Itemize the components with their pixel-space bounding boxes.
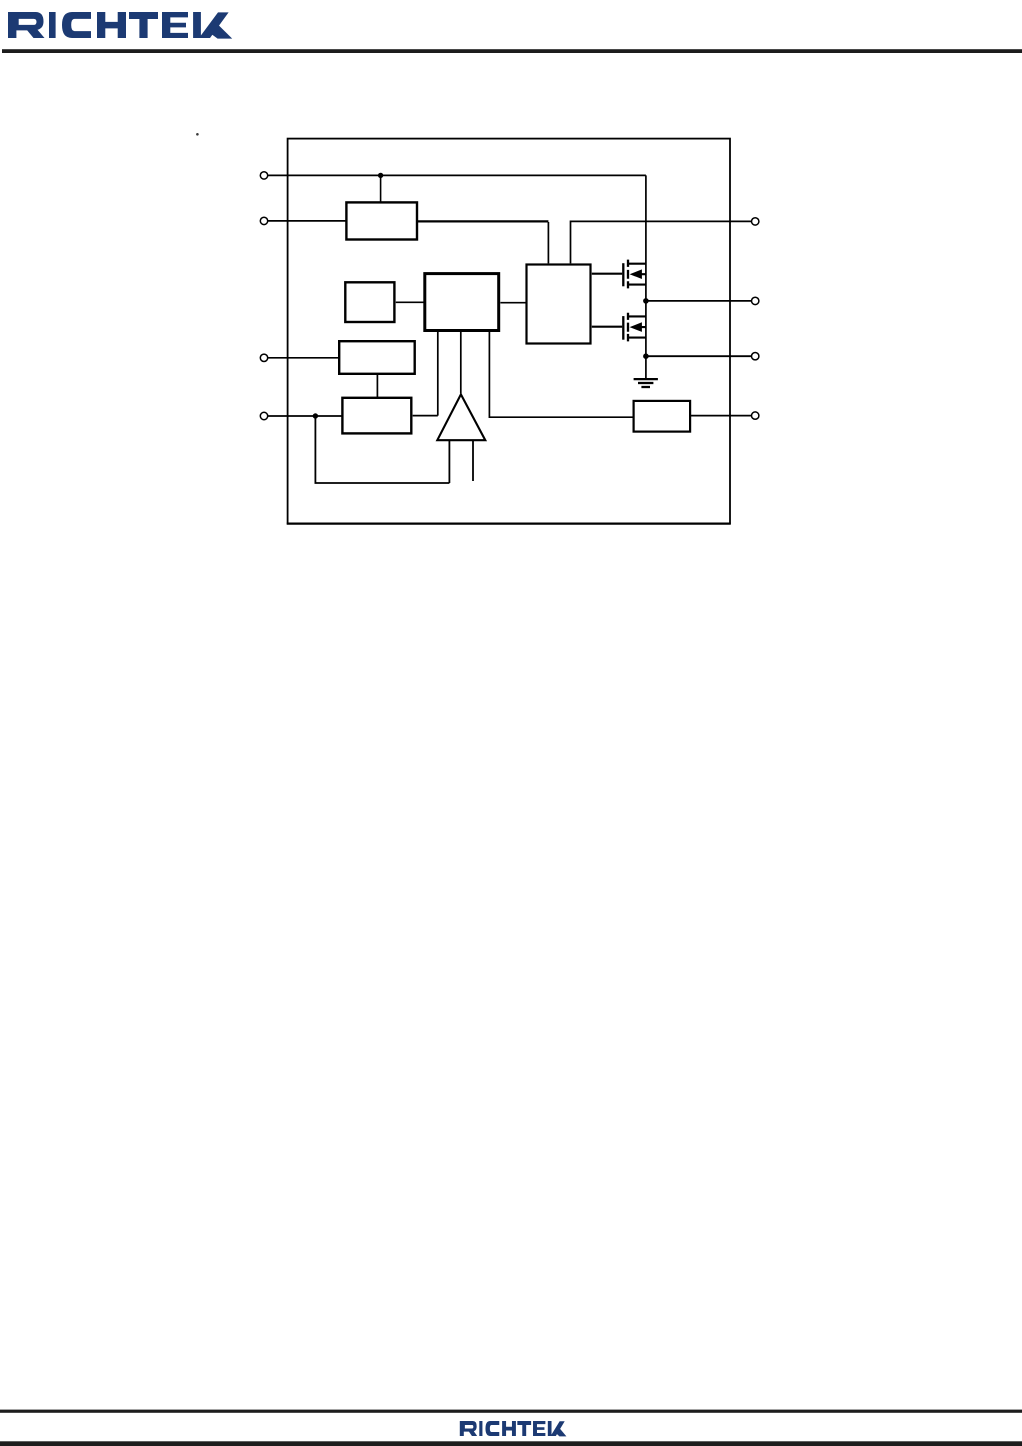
- junction dot PGND node: [643, 353, 649, 359]
- wire: pin P3 to block B5: [268, 357, 339, 359]
- wire: B5 to B6: [376, 375, 378, 397]
- pin P2 terminal: [260, 217, 267, 224]
- block B3 control logic: [425, 274, 499, 331]
- block B4 gate driver: [527, 265, 591, 344]
- transistor Q1 high-side NMOS: [623, 260, 646, 289]
- wire: B3 to B4: [500, 302, 526, 304]
- wire: PGND node to pin P7: [646, 355, 752, 357]
- wire: pin P2 to block B1 input: [268, 220, 346, 222]
- transistor Q2 low-side NMOS: [623, 313, 646, 342]
- wire: B1 output to driver block top: [418, 220, 549, 222]
- wire: B3 down and right to block B7: [489, 332, 633, 418]
- pin P7 terminal: [752, 353, 759, 360]
- pin P1 terminal: [260, 172, 267, 179]
- wire: top rail from pin P1 to MOSFET drain/source column: [268, 175, 646, 378]
- wire: driver to Q2 gate: [592, 326, 622, 328]
- ground symbol: [634, 379, 658, 387]
- wire: comparator reference input stub: [472, 441, 474, 482]
- pin P6 terminal: [752, 297, 759, 304]
- pin P8 terminal: [752, 412, 759, 419]
- wire: feedback from dot B to comparator non-inverting input: [315, 416, 449, 483]
- wire: dot A down to block B1: [380, 175, 382, 201]
- wire: driver block top to pin P5: [571, 221, 752, 263]
- junction dot B on pin P4 wire: [313, 413, 318, 418]
- pin P3 terminal: [260, 354, 267, 361]
- wire: B2 to B3: [396, 301, 424, 303]
- junction dot A on top rail: [378, 173, 383, 178]
- comparator A1: [437, 394, 485, 440]
- wire: B7 output to pin P8: [691, 415, 752, 417]
- pin P4 terminal: [260, 412, 267, 419]
- footer bottom bar: [0, 1441, 1022, 1446]
- wire: pin P4 to block B6 input: [268, 415, 342, 417]
- block B5: [339, 341, 415, 374]
- wire: comparator output up into B3: [460, 332, 462, 394]
- block B7: [634, 401, 691, 432]
- Richtek footer logo: [460, 1421, 567, 1436]
- IC boundary box bottom edge emphasis: [287, 522, 731, 524]
- block B2: [345, 282, 394, 322]
- IC boundary box: [288, 139, 730, 524]
- header rule: [2, 49, 1022, 53]
- wire: B6 output up into B3: [413, 332, 438, 416]
- stray dot mark: [196, 133, 199, 136]
- footer rule: [0, 1410, 1022, 1413]
- wire: driver to Q1 gate: [592, 273, 622, 275]
- pin P5 terminal: [752, 218, 759, 225]
- block B6: [342, 398, 411, 434]
- block B1: [346, 202, 417, 239]
- wire: SW node to pin P6: [646, 300, 752, 302]
- junction dot SW node: [643, 298, 649, 304]
- Richtek header logo: [8, 12, 232, 39]
